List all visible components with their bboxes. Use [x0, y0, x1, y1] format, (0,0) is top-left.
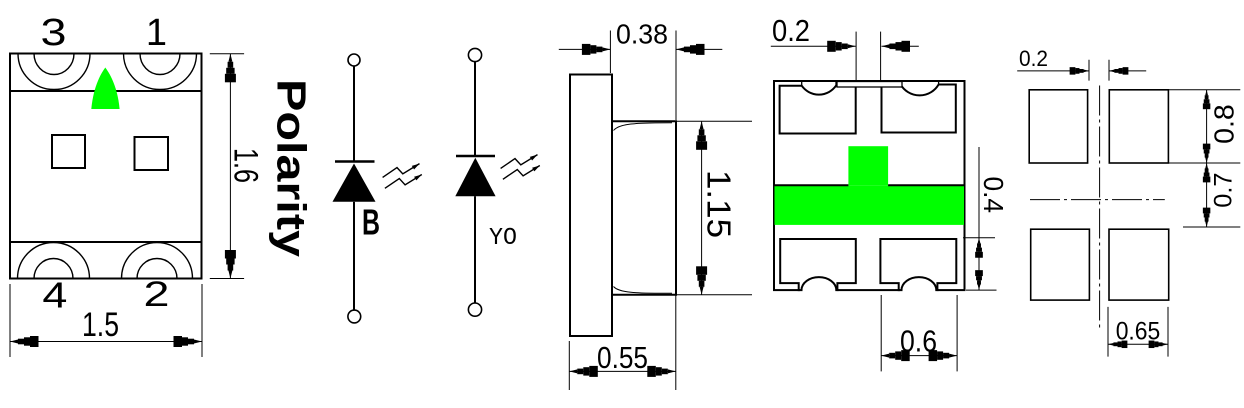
svg-text:Polarity: Polarity: [269, 79, 315, 257]
svg-text:B: B: [362, 201, 380, 242]
svg-text:0.38: 0.38: [616, 19, 668, 50]
svg-text:0.55: 0.55: [597, 340, 648, 375]
svg-text:1: 1: [146, 12, 167, 54]
svg-text:0.7: 0.7: [1210, 173, 1238, 208]
svg-text:3: 3: [41, 12, 67, 54]
svg-text:0.2: 0.2: [1019, 46, 1048, 71]
svg-text:1.6: 1.6: [227, 148, 265, 183]
svg-text:0.8: 0.8: [1209, 104, 1240, 144]
svg-text:4: 4: [42, 275, 67, 316]
svg-text:2: 2: [144, 275, 170, 314]
svg-text:1.5: 1.5: [82, 306, 119, 344]
svg-text:0.4: 0.4: [978, 177, 1009, 214]
svg-text:0.6: 0.6: [900, 324, 937, 359]
svg-text:0.2: 0.2: [772, 13, 810, 48]
svg-text:YO: YO: [489, 225, 517, 252]
svg-text:0.65: 0.65: [1116, 318, 1161, 346]
svg-text:1.15: 1.15: [701, 170, 738, 238]
